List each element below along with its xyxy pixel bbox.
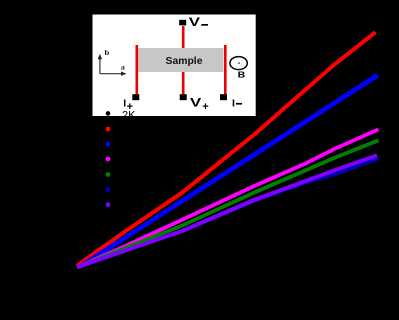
contact pad bottom-left — [132, 94, 139, 100]
contact lead bottom (V+) — [182, 72, 185, 96]
B-field circle — [230, 57, 247, 70]
data line violet — [77, 155, 377, 267]
svg-text:2K: 2K — [122, 110, 136, 122]
legend dot magenta — [106, 157, 111, 162]
sample bar (gray rectangle) — [137, 48, 224, 72]
svg-text:a: a — [121, 64, 125, 72]
legend dot navy — [106, 187, 111, 192]
data line navy — [77, 159, 379, 268]
legend dot 2K (black) — [106, 111, 111, 116]
contact lead top (V-) — [182, 26, 185, 48]
inset white panel — [93, 15, 256, 117]
data line red — [77, 32, 376, 266]
legend dot violet — [106, 202, 111, 207]
contact pad bottom-middle — [180, 94, 187, 100]
contact lead left (I+) — [136, 45, 139, 96]
svg-text:+: + — [202, 101, 208, 113]
svg-text:V: V — [189, 15, 200, 29]
contact lead right (I-) — [224, 45, 227, 96]
svg-text:Sample: Sample — [166, 56, 203, 67]
data line blue — [80, 75, 378, 267]
contact pad bottom-right — [220, 94, 227, 100]
svg-text:B: B — [238, 70, 246, 80]
legend dot blue — [106, 142, 111, 147]
svg-text:b: b — [105, 49, 110, 57]
data line magenta — [77, 129, 379, 267]
axis arrow b (vertical) — [99, 58, 101, 74]
data line green — [77, 140, 379, 267]
axis arrow a (horizontal) — [100, 73, 122, 75]
legend dot green — [106, 172, 111, 177]
svg-text:I: I — [232, 97, 235, 109]
contact pad top — [179, 20, 186, 26]
legend dot red — [106, 127, 111, 132]
svg-text:V: V — [190, 95, 201, 109]
B-field center dot — [238, 62, 240, 64]
